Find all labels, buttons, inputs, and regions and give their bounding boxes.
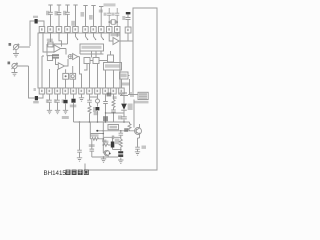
label R — [8, 62, 11, 65]
wire box C down — [128, 76, 130, 95]
wire to annotation — [128, 94, 138, 96]
capacitor C13 chain pin9 — [103, 94, 108, 122]
power stub pin18 — [73, 5, 77, 27]
crystal freq label — [104, 3, 116, 6]
pin box 1 bottom — [39, 88, 45, 94]
electrolytic C12 chain pin8 — [97, 94, 99, 122]
resistor R6 h — [103, 144, 110, 147]
pin box 16 top — [91, 27, 97, 33]
capacitor C21 dark — [118, 151, 123, 153]
label 1 — [9, 43, 12, 46]
power stub pin16 — [91, 6, 95, 27]
label C8 — [54, 99, 57, 103]
bus wire — [74, 121, 130, 123]
pin digits bottom — [41, 90, 122, 92]
label 10k pin9 — [107, 93, 112, 97]
wire Q2 collector up — [133, 100, 135, 128]
wire y149.5 — [113, 149, 121, 151]
varactor bias chain x121 — [119, 131, 124, 139]
rf amp triangle — [113, 38, 119, 45]
junction dots on bus — [79, 121, 81, 123]
pin box 11 bottom — [119, 88, 125, 94]
resistor R3 bus to osc — [128, 122, 131, 131]
crystal X1 network: left leg pin14 — [107, 8, 111, 27]
pin box 9 bottom — [103, 88, 109, 94]
resistor box Rb — [47, 56, 52, 61]
caption CJK glyph yuan — [72, 170, 77, 175]
IC U1 BH1415 outline — [38, 33, 120, 88]
pin box 14 top — [107, 27, 113, 33]
ground under VR2 — [12, 73, 18, 76]
pin box 19 top — [65, 27, 71, 33]
wire osc feed x90 — [90, 122, 103, 134]
box C pll — [120, 72, 129, 79]
op-amp A1 — [54, 45, 61, 52]
small box B2 — [93, 58, 99, 64]
stub pin22 internal — [43, 33, 54, 52]
label C7 — [46, 99, 49, 103]
program counter box B — [104, 63, 122, 71]
wire input1 coupling loop — [30, 21, 44, 46]
crystal X1 network: right leg pin13 — [115, 8, 119, 27]
shift register box A — [80, 44, 104, 51]
resistor R4 — [90, 137, 103, 140]
ground osc — [101, 157, 106, 162]
caption CJK glyph dian — [66, 170, 71, 175]
op-amp A3 — [73, 54, 78, 60]
power stub pin20 with capacitor C3 — [57, 5, 62, 27]
rf amp text — [111, 34, 120, 37]
crystal X1 symbol — [109, 20, 117, 24]
pin box 12 top — [125, 27, 131, 33]
ground under VR1 — [13, 54, 19, 57]
power stub pin17 — [83, 6, 87, 27]
pin box 21 top — [48, 27, 54, 33]
capacitor C1 (polarized, input 1) — [35, 19, 38, 24]
right enclosure wire top — [85, 8, 157, 170]
power stub pin15 — [99, 7, 103, 27]
caption CJK glyph tu — [84, 170, 89, 175]
resistor R1 chain pin7 — [88, 106, 91, 123]
capacitor C14 chain x80 — [77, 122, 82, 158]
capacitor C9 chain pin4 (polarized) — [65, 94, 67, 110]
wire mid column x103 — [102, 122, 104, 153]
trimmer stub pin12 with capacitor C5 — [126, 15, 131, 28]
ground pin3 — [55, 110, 60, 113]
caption CJK glyph li — [78, 170, 83, 175]
input pot VR1 — [13, 44, 30, 53]
trimmer label — [122, 16, 125, 20]
ground under Q2 — [135, 152, 140, 155]
small box B3 — [108, 55, 114, 62]
annotation box freq — [138, 92, 148, 99]
wire component row y137.3 — [103, 136, 121, 138]
osc bottom wire y157 — [92, 156, 118, 158]
top stub labels — [46, 11, 49, 15]
wires between boxes — [84, 51, 108, 70]
varactor D1 chain pin11 — [120, 94, 128, 122]
pin box 4 bottom — [63, 88, 68, 94]
crystal cap labels — [104, 13, 107, 16]
pin box 5 bottom — [71, 88, 77, 94]
wire under box A — [80, 51, 104, 54]
pin box 10 bottom — [111, 88, 117, 94]
ground chain x80 — [77, 158, 82, 161]
wire VR2 to bottom pin1 — [29, 66, 35, 98]
pin1 label — [34, 88, 36, 91]
small box D2 circle — [70, 73, 76, 79]
pin box 22 top — [39, 27, 45, 33]
capacitor C7 chain pin2 — [47, 94, 52, 110]
small box D1 dot — [63, 73, 69, 79]
pin box 3 bottom — [55, 88, 61, 94]
ground pin4 — [63, 110, 68, 113]
caption BH1415 — [44, 170, 89, 177]
summing node — [68, 55, 72, 59]
pin box 15 top — [99, 27, 105, 33]
ground chain x121 — [118, 158, 123, 164]
label Q1 — [102, 140, 106, 143]
resistor R2 chain pin10 — [111, 94, 116, 122]
input pot VR2 — [12, 63, 29, 72]
capacitor C19 inline — [112, 136, 113, 140]
power stub pin21 with capacitor C2 — [48, 5, 53, 27]
internal verticals to bottom pins — [66, 66, 74, 88]
small box B1 — [84, 58, 90, 64]
inductor L1 box — [108, 125, 119, 130]
transistor Q1 — [104, 150, 109, 155]
capacitor C6 (polarized) — [35, 96, 38, 100]
ground pin2 — [47, 110, 52, 113]
capacitor C16 — [90, 139, 95, 157]
svg-text:BH1415: BH1415 — [44, 170, 67, 177]
feedback wire A1 — [59, 33, 62, 47]
ground pin6 — [79, 94, 84, 101]
pin box 6 bottom — [79, 88, 85, 94]
label near Q2 — [124, 128, 128, 132]
wire Q2 base y131 — [97, 130, 135, 132]
pin box 7 bottom — [87, 88, 93, 94]
pin box 8 bottom — [95, 88, 101, 94]
wire mid tie — [106, 112, 125, 114]
pin box 18 top — [73, 27, 79, 33]
pin box 13 top — [115, 27, 121, 33]
transistor Q2 — [135, 124, 142, 138]
label 470 — [103, 116, 108, 121]
capacitor C10 chain pin5 (polarized) to bus — [73, 94, 75, 122]
pin box 17 top — [83, 27, 89, 33]
pin digits top — [41, 28, 129, 31]
capacitor C8 chain pin3 — [55, 94, 60, 110]
capacitor C20 polarized — [111, 142, 115, 148]
capacitor C17 under Q2 — [135, 138, 140, 152]
op-amp A2 — [58, 63, 64, 69]
power stub pin19 with capacitor C4 — [65, 5, 70, 27]
resistor box Ra — [48, 42, 53, 47]
pin box 20 top — [56, 27, 62, 33]
pre-emphasis text — [52, 54, 59, 56]
capacitor C18 on annotation wire — [131, 92, 133, 97]
pin box 2 bottom — [47, 88, 53, 94]
label C9 — [62, 99, 64, 103]
capacitor C11 chain pin7 — [87, 97, 92, 106]
switch arrows pins 18-15 — [76, 33, 104, 40]
wire pin7-pin8 tie — [90, 94, 98, 97]
